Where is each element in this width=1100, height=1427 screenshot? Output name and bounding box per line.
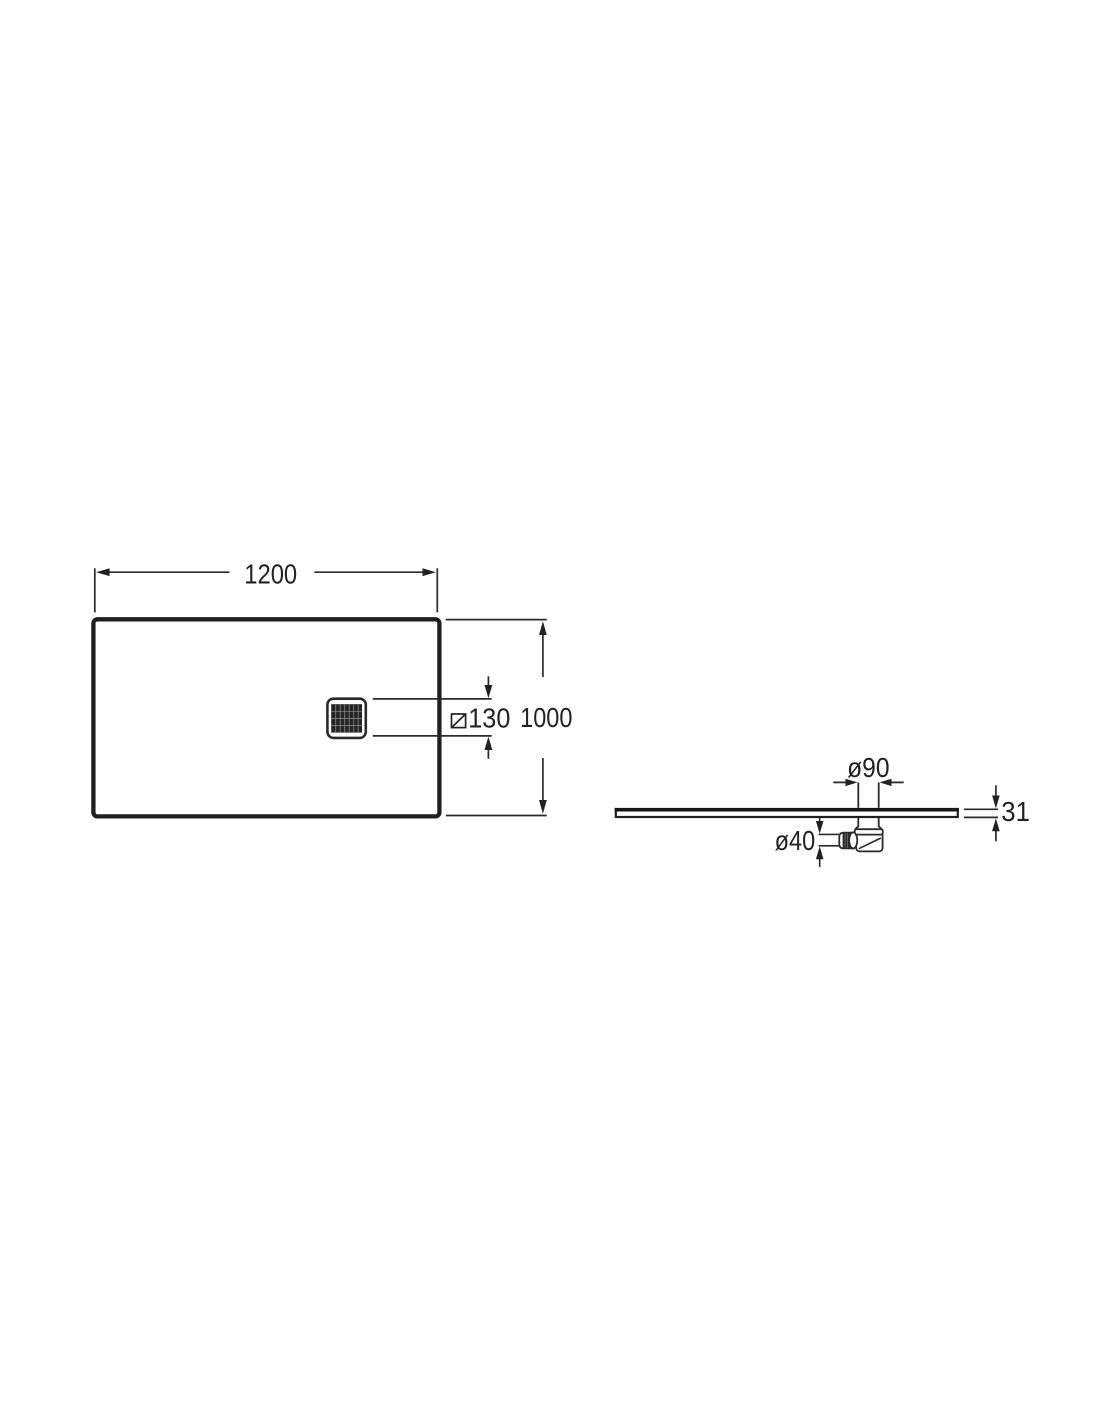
side view tray slab (615, 810, 959, 817)
dimension square 130 drain (373, 676, 492, 759)
dimension 1200 (95, 568, 438, 612)
wire extension bottom (964, 816, 998, 818)
outlet nut cylinder (839, 832, 857, 848)
svg-text:31: 31 (1001, 796, 1030, 827)
arrowheads 1000 (539, 621, 547, 814)
drain trap side view (855, 818, 883, 851)
svg-text:1200: 1200 (244, 558, 297, 590)
svg-text:ø40: ø40 (775, 826, 816, 856)
arrowheads 130 (485, 685, 493, 750)
wire arrow tails (487, 676, 489, 687)
wire extension right (878, 782, 880, 807)
arrowheads 1200 (96, 568, 436, 576)
wire arrow tails (819, 817, 821, 823)
wire extension left (94, 568, 96, 612)
svg-text:1000: 1000 (520, 703, 572, 733)
wire dim line (107, 571, 230, 573)
wire extension bottom (446, 815, 547, 817)
dimension diameter 90 (833, 782, 903, 807)
wire extension left (857, 782, 859, 807)
arrowheads dia 40 (816, 821, 824, 859)
dimension 31 (964, 785, 998, 841)
trap diagonal (859, 838, 881, 849)
trap body (856, 832, 883, 852)
svg-text:ø90: ø90 (847, 752, 889, 784)
wire extension top (446, 619, 547, 621)
svg-text:130: 130 (468, 702, 510, 734)
dimension diameter 40 (819, 817, 839, 867)
wire lower (819, 845, 839, 847)
wire upper (373, 698, 492, 700)
wire lower (373, 735, 492, 737)
wire upper (819, 833, 839, 835)
tray outline top view (93, 619, 439, 816)
square symbol (452, 714, 466, 728)
pipe neck (855, 818, 858, 829)
arrowheads dia 90 (846, 779, 892, 786)
wire arrow tails (995, 785, 997, 796)
wire extension top (964, 808, 998, 810)
arrowheads 31 (992, 796, 1000, 832)
wire arrow tails (833, 781, 847, 783)
wire dim line (542, 633, 544, 677)
trap collar (855, 829, 883, 834)
drain grate (327, 699, 365, 738)
wire extension right (436, 568, 438, 612)
dimension 1000 (446, 620, 547, 816)
